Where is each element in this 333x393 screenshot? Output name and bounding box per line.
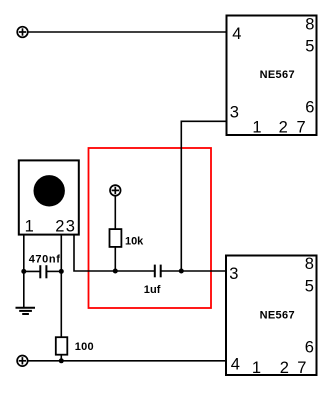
microphone MIC1 body bbox=[19, 160, 79, 234]
svg-text:3: 3 bbox=[229, 265, 238, 283]
wire: U1 pin 3 to junction (left then down) bbox=[181, 121, 226, 271]
capacitor 470nf plate right bbox=[45, 265, 47, 278]
svg-text:7: 7 bbox=[297, 359, 306, 377]
wire: pin1 node to 470nf bbox=[24, 270, 40, 272]
junction at MIC1 pin2 / 470nf bbox=[59, 269, 64, 274]
wire: MIC1 pin 1 down to ground bbox=[23, 235, 25, 308]
wire: 1uf to U2 pin 3 bbox=[161, 270, 226, 272]
supply +V terminal (above 10k) bbox=[110, 185, 121, 196]
svg-text:10k: 10k bbox=[125, 236, 144, 248]
capacitor 470nf plate left bbox=[39, 265, 41, 278]
ground symbol bbox=[16, 308, 36, 314]
microphone MIC1 capsule circle bbox=[34, 175, 65, 206]
svg-text:1: 1 bbox=[252, 118, 261, 136]
junction at 10k / main wire bbox=[113, 269, 118, 274]
svg-text:2: 2 bbox=[55, 218, 64, 236]
IC U2 NE567 (bottom) bbox=[226, 256, 317, 376]
wire: +V to U1 pin 4 bbox=[28, 31, 227, 33]
svg-text:4: 4 bbox=[231, 356, 240, 374]
svg-text:NE567: NE567 bbox=[260, 69, 295, 81]
svg-text:3: 3 bbox=[230, 104, 239, 122]
supply +V terminal (bottom left) bbox=[17, 356, 28, 367]
svg-text:8: 8 bbox=[305, 16, 314, 34]
svg-text:8: 8 bbox=[305, 255, 314, 273]
svg-text:1uf: 1uf bbox=[144, 284, 161, 296]
junction at U1 pin3 branch / main wire bbox=[179, 269, 184, 274]
svg-text:7: 7 bbox=[297, 118, 306, 136]
junction at MIC1 pin1 / 470nf bbox=[21, 269, 26, 274]
capacitor C 1uf plate left bbox=[154, 265, 156, 278]
svg-text:4: 4 bbox=[232, 25, 241, 43]
svg-text:3: 3 bbox=[66, 218, 75, 236]
wire: resistor 100 to supply rail bbox=[60, 355, 62, 361]
svg-text:NE567: NE567 bbox=[260, 309, 295, 321]
svg-text:1: 1 bbox=[25, 218, 34, 236]
supply +V terminal (top left) bbox=[17, 27, 28, 38]
svg-text:470nf: 470nf bbox=[29, 253, 61, 265]
resistor 100 bbox=[56, 337, 68, 355]
svg-text:2: 2 bbox=[279, 118, 288, 136]
wire: MIC1 pin 2 down to resistor 100 bbox=[60, 235, 62, 338]
svg-text:6: 6 bbox=[305, 338, 314, 356]
capacitor C 1uf plate right bbox=[160, 265, 162, 278]
svg-text:1: 1 bbox=[252, 359, 261, 377]
svg-text:6: 6 bbox=[305, 99, 314, 117]
junction at 100 resistor / +V rail bbox=[59, 358, 64, 363]
wire: +V rail to U2 pin 4 bbox=[28, 360, 226, 362]
svg-text:100: 100 bbox=[75, 341, 94, 353]
wire: 470nf to pin2 node bbox=[46, 270, 61, 272]
svg-text:2: 2 bbox=[280, 359, 289, 377]
svg-text:5: 5 bbox=[305, 38, 314, 56]
svg-text:5: 5 bbox=[305, 278, 314, 296]
wire: 10k to main node bbox=[114, 247, 116, 271]
IC U1 NE567 (top) bbox=[227, 16, 317, 136]
highlight box (red region) bbox=[89, 148, 212, 308]
resistor 10k bbox=[110, 229, 122, 247]
wire: MIC1 pin 3 down and right to cap 1uf bbox=[74, 235, 155, 271]
wire: +V to resistor 10k bbox=[114, 196, 116, 229]
